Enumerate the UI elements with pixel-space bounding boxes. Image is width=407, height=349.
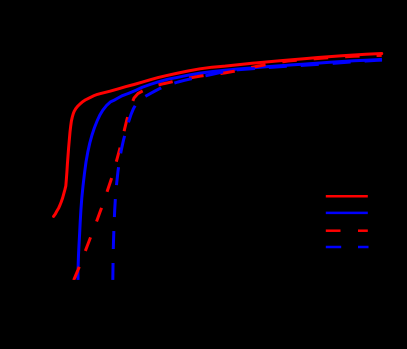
legend blue solid sample <box>326 212 368 215</box>
red dashed curve <box>73 55 382 282</box>
blue solid curve <box>78 59 382 281</box>
blue dashed curve <box>113 60 382 281</box>
legend red solid sample <box>326 195 368 198</box>
red solid curve <box>54 54 382 217</box>
legend blue dashed sample <box>326 246 341 249</box>
x-axis spine (black) clipping curve bottoms <box>0 280 407 292</box>
legend red dashed sample <box>326 229 341 232</box>
